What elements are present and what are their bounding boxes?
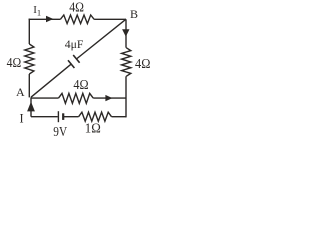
svg-text:4Ω: 4Ω — [135, 56, 150, 71]
svg-text:4Ω: 4Ω — [69, 0, 84, 15]
svg-text:4Ω: 4Ω — [73, 77, 88, 92]
svg-text:9V: 9V — [53, 124, 67, 139]
svg-text:A: A — [16, 85, 25, 99]
svg-text:1Ω: 1Ω — [85, 120, 101, 135]
svg-text:B: B — [130, 7, 138, 21]
svg-text:I1: I1 — [33, 4, 41, 18]
svg-text:4μF: 4μF — [65, 39, 84, 51]
svg-text:I: I — [20, 111, 24, 125]
svg-text:4Ω: 4Ω — [7, 55, 22, 70]
